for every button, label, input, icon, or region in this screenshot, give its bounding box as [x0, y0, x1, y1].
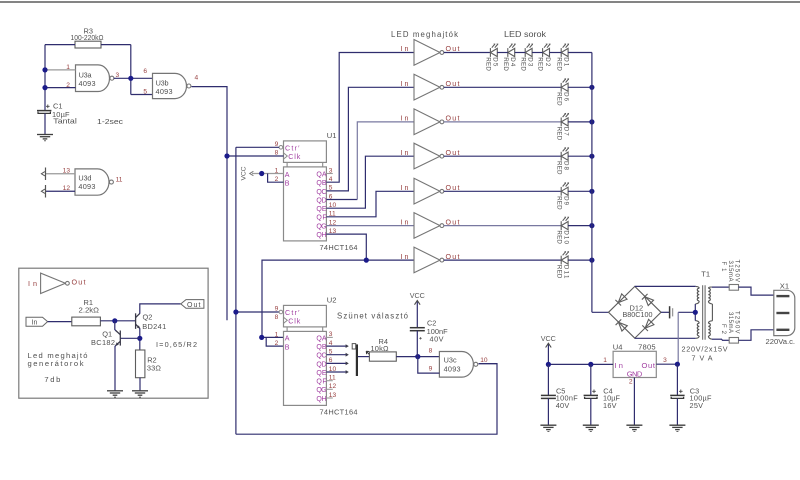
pin 1 wire U3a [45, 69, 76, 71]
wire bus to bridge [592, 311, 609, 313]
wire Q2 collector to Out tag [140, 304, 181, 314]
svg-text:Q2: Q2 [143, 313, 153, 322]
svg-text:RED: RED [502, 57, 509, 71]
svg-text:7db: 7db [44, 375, 60, 384]
svg-text:U3b: U3b [156, 79, 169, 88]
svg-text:RED: RED [555, 127, 562, 141]
svg-text:33Ω: 33Ω [147, 364, 161, 373]
pin 12 wire U3d [46, 190, 75, 192]
node C2 junction [415, 354, 420, 359]
wire U1 B jog [268, 174, 284, 183]
LED D4 [508, 44, 515, 57]
LED D7 [561, 114, 568, 127]
svg-text:D2: D2 [544, 57, 551, 67]
fuse F2 [729, 338, 738, 344]
svg-text:B: B [285, 343, 290, 351]
port tag Out [181, 300, 204, 309]
wire LED chain segment [515, 52, 526, 54]
svg-text:9: 9 [429, 365, 433, 372]
svg-text:2: 2 [66, 82, 70, 89]
svg-text:QA: QA [316, 335, 327, 342]
pin Ctr U2 [279, 310, 283, 314]
svg-text:U3c: U3c [444, 356, 457, 365]
T1 secondary winding upper [697, 288, 699, 301]
wire D10 to bus [568, 225, 592, 227]
node bus junction [589, 119, 594, 124]
capacitor C1 [46, 105, 50, 109]
svg-text:Clk: Clk [288, 153, 300, 161]
pin stub U2 [326, 397, 332, 399]
node Clk branch [224, 153, 229, 158]
pin 13 wire U3d [46, 173, 75, 175]
svg-text:315mA: 315mA [727, 312, 733, 333]
wire C1 to ground [44, 113, 46, 134]
svg-text:10kΩ: 10kΩ [371, 344, 389, 353]
wire QH net to U2 A/B [262, 260, 366, 337]
node bus junction [589, 258, 594, 263]
svg-text:4093: 4093 [156, 87, 173, 96]
svg-text:RED: RED [485, 57, 492, 71]
ground below U4 [626, 425, 642, 429]
wire bridge bottom to transformer [635, 337, 696, 339]
svg-text:In: In [401, 184, 409, 192]
transistor Q2 BD241 [136, 313, 140, 329]
svg-text:RED: RED [519, 57, 526, 71]
svg-text:BC182: BC182 [91, 338, 115, 347]
input port symbol pin 12 [45, 185, 47, 198]
svg-text:D7: D7 [563, 127, 570, 137]
svg-text:QB: QB [316, 344, 327, 351]
wire U4 GND pin [633, 378, 635, 426]
svg-text:In: In [614, 361, 623, 370]
LED D6 [561, 79, 568, 92]
wire left node vertical [44, 45, 46, 111]
selector tap wires from U2 [326, 345, 346, 347]
node emitter junction [137, 336, 142, 341]
node QH row7 junction [364, 258, 369, 263]
pin stub U2 [326, 380, 332, 382]
svg-text:A: A [285, 335, 290, 343]
svg-text:QF: QF [316, 379, 326, 386]
svg-text:1-2sec: 1-2sec [97, 117, 123, 126]
svg-text:B: B [285, 180, 290, 188]
svg-text:7805: 7805 [638, 342, 656, 351]
svg-text:6: 6 [143, 68, 147, 75]
wire U1 QB to driver row 1 [326, 53, 414, 183]
wire U1 QD to driver row 3 [326, 199, 357, 201]
pin 2 wire U3a [45, 87, 76, 89]
pin stub U2 [326, 336, 332, 338]
svg-text:B80C100: B80C100 [623, 310, 653, 319]
svg-text:7VA: 7VA [692, 354, 713, 363]
wire U3c pin9 jog [418, 357, 440, 374]
svg-text:10: 10 [480, 357, 488, 364]
svg-text:100-220kΩ: 100-220kΩ [71, 33, 104, 42]
svg-text:74HCT164: 74HCT164 [320, 243, 358, 252]
svg-text:2: 2 [275, 340, 279, 347]
wire D8 to bus [568, 155, 592, 157]
svg-text:X1: X1 [780, 282, 789, 291]
wire D1 to bus [568, 52, 592, 54]
op-amp buffer symbol in box [41, 273, 66, 293]
svg-text:8: 8 [275, 314, 279, 321]
svg-text:25V: 25V [690, 401, 704, 410]
svg-text:RED: RED [555, 161, 562, 175]
svg-text:Out: Out [72, 278, 86, 287]
port tag In [26, 317, 48, 326]
svg-text:2.2kΩ: 2.2kΩ [79, 305, 100, 314]
node bus junction [589, 189, 594, 194]
svg-text:U4: U4 [613, 342, 623, 351]
input port symbol pin 13 [45, 168, 47, 181]
capacitor C2 [410, 327, 425, 329]
op-amp driver row 5 [414, 178, 440, 204]
svg-text:Out: Out [642, 361, 656, 370]
svg-text:QD: QD [316, 361, 326, 368]
svg-text:BD241: BD241 [142, 322, 166, 331]
svg-text:In: In [401, 80, 409, 88]
svg-text:In: In [401, 45, 409, 53]
svg-text:VCC: VCC [241, 166, 248, 180]
wire D6 to bus [568, 86, 592, 88]
wire row 7 feed [366, 259, 414, 261]
wire R3 left to node [45, 44, 75, 46]
svg-text:220V/2x15V: 220V/2x15V [682, 344, 728, 353]
wire to U1 Ctr pin 9 [236, 146, 279, 148]
resistor R2 [136, 350, 145, 378]
svg-text:QC: QC [316, 189, 326, 196]
diode bridge bottom-right [642, 319, 654, 331]
svg-text:Szünet választó: Szünet választó [337, 312, 409, 321]
svg-text:D8: D8 [563, 161, 570, 171]
svg-text:Tantal: Tantal [53, 117, 77, 126]
wire R4 to U3c [396, 356, 439, 358]
svg-text:D1: D1 [563, 57, 570, 67]
svg-text:In: In [401, 218, 409, 226]
wire driver4 out to D8 [444, 155, 561, 157]
wire T1 center tap [694, 304, 696, 321]
wire bridge top to transformer [635, 285, 696, 287]
svg-text:QC: QC [316, 353, 326, 360]
wire LED chain segment [550, 52, 562, 54]
wire driver6 out to D10 [444, 225, 561, 227]
wire U1 QF to driver row 5 [326, 191, 414, 217]
svg-text:4093: 4093 [444, 365, 461, 374]
wire driver7 out to D11 [444, 259, 561, 261]
selector wiper arrow [366, 351, 370, 355]
svg-text:D11: D11 [563, 265, 570, 279]
svg-text:4093: 4093 [78, 182, 95, 191]
op-amp driver row 7 [414, 247, 440, 273]
op-amp driver row 6 [414, 213, 440, 239]
svg-text:D5: D5 [492, 57, 499, 67]
wire feedback vertical [130, 45, 132, 95]
svg-text:315mA: 315mA [727, 261, 733, 282]
svg-text:8: 8 [429, 348, 433, 355]
wire U1 QE to driver row 4 [326, 156, 414, 208]
pin Clk U1 [284, 153, 288, 159]
selector bar [356, 344, 358, 376]
wire emitter node to Q1 base [120, 337, 140, 339]
op-amp driver row 4 [414, 143, 440, 169]
top toolbar border line [0, 1, 800, 3]
node U4 out [675, 362, 680, 367]
wire U2 A pin [262, 336, 284, 338]
svg-text:generátorok: generátorok [28, 359, 84, 368]
ground below C5 [540, 425, 556, 429]
ground below R2 [132, 391, 148, 395]
svg-text:220Va.c.: 220Va.c. [766, 337, 796, 346]
wire U3a output pin 3 [114, 77, 153, 79]
wire Q1 emitter to ground [114, 345, 117, 390]
LED D3 [525, 44, 532, 57]
op-amp U3c [439, 352, 473, 378]
svg-text:D9: D9 [563, 196, 570, 206]
capacitor C5 [547, 364, 549, 395]
wire driver2 out to D6 [444, 86, 561, 88]
svg-text:In: In [401, 253, 409, 261]
wire U1 QC to driver row 2 [326, 87, 414, 191]
node VCC rail [546, 362, 551, 367]
svg-text:40V: 40V [556, 401, 570, 410]
svg-text:QE: QE [316, 206, 327, 213]
LED D1 [561, 44, 568, 57]
resistor R3 [75, 41, 101, 48]
svg-text:QE: QE [316, 370, 327, 377]
bridge rectifier D12 [609, 286, 662, 338]
op-amp U3b [153, 73, 187, 98]
VCC arrow at U1 A/B [252, 173, 284, 175]
svg-text:74HCT164: 74HCT164 [320, 408, 358, 417]
wire In tag to R1 [48, 321, 72, 323]
op-amp U3a [76, 65, 110, 92]
capacitor C4 [590, 364, 592, 395]
svg-text:4093: 4093 [79, 79, 96, 88]
wire Q1 collector to base node [115, 321, 116, 331]
svg-text:5: 5 [143, 88, 147, 95]
connector X1 [774, 290, 795, 335]
resistor R1 [72, 317, 101, 326]
node bus junction [589, 154, 594, 159]
pin stub U1 QA [326, 173, 332, 175]
svg-text:U2: U2 [327, 296, 337, 305]
svg-text:Clk: Clk [288, 318, 300, 326]
fuse F1 [729, 285, 738, 291]
svg-text:QH: QH [316, 232, 326, 239]
node bus junction [589, 85, 594, 90]
op-amp driver row 1 [414, 40, 440, 66]
svg-text:RED: RED [555, 230, 562, 244]
node U2 A/B junction [259, 335, 264, 340]
svg-text:QG: QG [316, 387, 326, 394]
svg-text:T250V: T250V [734, 260, 740, 283]
svg-text:16V: 16V [603, 401, 617, 410]
resistor R4 [369, 352, 396, 361]
wire LED chain segment [497, 52, 508, 54]
LED D5 [490, 44, 497, 57]
svg-text:U1: U1 [327, 131, 337, 140]
LED D10 [561, 217, 568, 230]
svg-text:3: 3 [663, 357, 667, 364]
node bus junction [589, 223, 594, 228]
svg-text:LED sorok: LED sorok [504, 30, 546, 39]
wire to U2 Ctr pin 9 [236, 311, 279, 313]
svg-text:RED: RED [555, 57, 562, 71]
node C4 junction [588, 362, 593, 367]
svg-text:Ctr′: Ctr′ [285, 309, 300, 317]
LED D9 [561, 183, 568, 196]
svg-text:In: In [28, 279, 37, 288]
svg-text:In: In [32, 320, 38, 327]
svg-text:D6: D6 [563, 92, 570, 102]
svg-text:U3a: U3a [79, 70, 93, 79]
svg-text:RED: RED [555, 196, 562, 210]
wire R1 to Q2 base [100, 320, 135, 322]
T1 primary winding lower [708, 323, 710, 336]
wire U1 QH down to row 7 [326, 234, 366, 260]
svg-text:4: 4 [195, 75, 199, 82]
node U3a output [128, 76, 133, 81]
wire LED anode bus [591, 53, 593, 313]
diode bridge top-right [642, 294, 654, 306]
svg-text:1: 1 [603, 357, 607, 364]
sub-circuit frame box [19, 268, 208, 398]
svg-text:VCC: VCC [541, 334, 556, 343]
ground below C4 [583, 425, 599, 429]
svg-text:40V: 40V [430, 335, 444, 344]
wire driver1 out to LED chain [444, 52, 491, 54]
op-amp driver row 3 [414, 109, 440, 135]
svg-text:QD: QD [316, 197, 326, 204]
wire D7 to bus [568, 121, 592, 123]
svg-text:D4: D4 [509, 57, 516, 67]
svg-text:Out: Out [187, 302, 201, 309]
wire master reset net vertical [235, 147, 237, 434]
wire U2 B jog [266, 337, 283, 346]
svg-text:RED: RED [537, 57, 544, 71]
wire U4 input rail [548, 363, 613, 365]
wire driver5 out to D9 [444, 190, 561, 192]
pin Ctr U1 [279, 146, 283, 150]
wire T1 to fuse F1 [712, 286, 729, 288]
ground below Q1 [107, 391, 123, 395]
capacitor at bridge minus [661, 311, 669, 313]
pin stub U2 [326, 388, 332, 390]
diode bridge top-left [615, 294, 627, 306]
LED D8 [561, 148, 568, 161]
svg-text:In: In [401, 115, 409, 123]
LED D2 [543, 44, 550, 57]
op-amp U3d [75, 169, 109, 195]
svg-text:13: 13 [63, 167, 71, 174]
wire T1 primary series link [711, 304, 713, 321]
svg-text:3: 3 [116, 72, 120, 79]
wire U3c output [479, 363, 498, 365]
wire T1 to fuse F2 [712, 338, 722, 340]
svg-text:QH: QH [316, 396, 326, 403]
capacitor C3 [676, 364, 678, 395]
svg-text:1: 1 [66, 64, 70, 71]
svg-text:2: 2 [629, 379, 633, 386]
svg-text:1: 1 [275, 331, 279, 338]
svg-text:RED: RED [555, 265, 562, 279]
svg-text:T250V: T250V [734, 311, 740, 334]
wire F1 to X1 [739, 287, 774, 295]
svg-text:VCC: VCC [410, 291, 425, 300]
wire D9 to bus [568, 190, 592, 192]
svg-text:9: 9 [275, 306, 279, 313]
wire selector to R4 [358, 356, 370, 358]
svg-text:GND: GND [627, 369, 643, 378]
wire driver3 out to D7 [444, 121, 561, 123]
svg-text:D3: D3 [527, 57, 534, 67]
selector jumper square [352, 344, 356, 349]
wire R2 to ground [139, 378, 141, 391]
pin Clk U2 [284, 317, 288, 323]
ground below C1 [37, 135, 53, 139]
T1 secondary winding lower [697, 323, 699, 336]
T1 primary winding upper [708, 288, 710, 301]
wire D11 to bus [568, 259, 592, 261]
wire Q2 emitter down [139, 328, 141, 350]
IC U1 74HCT164 body [284, 141, 327, 163]
wire LED chain segment [532, 52, 543, 54]
svg-text:T1: T1 [701, 270, 710, 279]
wire U3b out to U1 Clk [227, 155, 284, 157]
svg-text:11: 11 [116, 177, 123, 184]
diode bridge bottom-left [616, 319, 628, 331]
node U3a input junctions [42, 67, 47, 72]
wire reset net bottom run [236, 364, 497, 435]
wire to U3b pin 5 [131, 94, 153, 96]
svg-text:I=0,65/R2: I=0,65/R2 [156, 340, 197, 349]
wire center tap to regulator node [678, 311, 695, 313]
wire R3 right to feedback [101, 44, 131, 46]
svg-text:In: In [401, 149, 409, 157]
svg-text:QA: QA [316, 171, 327, 178]
svg-text:LED meghajtók: LED meghajtók [391, 30, 458, 39]
svg-text:QB: QB [316, 180, 327, 187]
wire F2 to X1 [739, 330, 774, 341]
svg-text:QF: QF [316, 215, 326, 222]
wire U1 QG to driver row 6 [326, 225, 414, 227]
svg-text:RED: RED [555, 92, 562, 106]
IC U2 74HCT164 body [284, 305, 327, 327]
svg-text:D10: D10 [563, 230, 570, 244]
op-amp driver row 2 [414, 74, 440, 100]
voltage regulator U4 7805 [613, 351, 656, 377]
wire U4 output [656, 363, 677, 365]
node U2 Ctr branch [233, 309, 238, 314]
node center tap [693, 310, 698, 315]
node base junction [112, 318, 117, 323]
LED D11 [561, 252, 568, 265]
node U1 A/B junction [259, 171, 264, 176]
svg-text:12: 12 [63, 185, 71, 192]
svg-text:A: A [285, 171, 290, 179]
svg-text:Ctr′: Ctr′ [285, 145, 300, 153]
svg-text:QG: QG [316, 223, 326, 230]
ground below C3 [669, 425, 685, 429]
transistor Q1 BC182 [116, 331, 121, 346]
